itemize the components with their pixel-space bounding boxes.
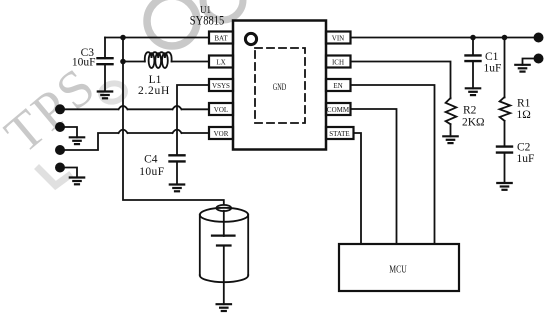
svg-text:1Ω: 1Ω	[517, 109, 531, 121]
pin VOL	[209, 103, 233, 115]
node C1 junction	[470, 35, 476, 41]
pin VOR	[209, 127, 233, 139]
ground at output terminal	[515, 59, 538, 72]
ground under C1	[466, 88, 480, 95]
svg-text:VSYS: VSYS	[212, 82, 230, 90]
svg-text:COMM: COMM	[327, 106, 350, 114]
pin-1 marker circle	[245, 33, 256, 44]
svg-text:1uF: 1uF	[517, 153, 535, 165]
wire VIN rail	[351, 37, 539, 39]
svg-text:BAT: BAT	[214, 35, 228, 43]
wire VOR with crossover hops	[60, 130, 209, 150]
terminal gnd 2	[55, 163, 65, 173]
svg-text:MCU: MCU	[389, 263, 407, 275]
wire VOL with crossover hops	[60, 106, 209, 109]
svg-text:1uF: 1uF	[484, 63, 502, 75]
GND exposed pad (dashed)	[255, 48, 305, 123]
ground under battery	[217, 304, 231, 311]
ground under C3	[98, 92, 112, 99]
svg-text:C1: C1	[485, 51, 499, 63]
pin VIN	[326, 32, 351, 44]
pin EN	[326, 79, 351, 91]
pin COMM	[326, 103, 351, 115]
ground at terminal 2	[60, 168, 84, 185]
svg-text:LX: LX	[216, 59, 225, 67]
MCU block	[339, 244, 459, 291]
node BAT/C3 junction	[120, 35, 126, 41]
svg-text:ICH: ICH	[332, 59, 344, 67]
pin STATE	[326, 127, 354, 139]
ground under C2	[497, 183, 511, 190]
ground at terminal 1	[60, 127, 84, 144]
svg-text:TPS: TPS	[0, 56, 107, 164]
wire VSYS down	[177, 85, 209, 155]
svg-text:STATE: STATE	[329, 130, 349, 138]
wire EN to MCU	[351, 85, 435, 244]
wire BAT rail down to battery	[123, 38, 224, 205]
terminal VOR input	[55, 145, 65, 155]
pin BAT	[209, 32, 233, 44]
pin VSYS	[209, 79, 233, 91]
svg-text:VOR: VOR	[214, 130, 229, 138]
capacitor C4	[139, 153, 184, 184]
pin LX	[209, 56, 233, 68]
wire LX line	[123, 61, 209, 63]
ground under R2	[443, 136, 457, 143]
svg-text:C4: C4	[144, 153, 158, 165]
svg-text:2KΩ: 2KΩ	[462, 117, 485, 129]
capacitor C2	[497, 142, 534, 184]
battery cell	[200, 205, 248, 304]
watermark	[0, 0, 243, 186]
svg-text:SY8815: SY8815	[190, 14, 225, 28]
svg-text:VOL: VOL	[214, 106, 228, 114]
wire ICH to R2	[351, 62, 451, 99]
wire STATE to MCU	[354, 133, 362, 244]
terminal VOL input	[55, 104, 65, 114]
wire COMM to MCU	[351, 109, 397, 244]
resistor R2 2K	[446, 98, 485, 136]
capacitor C1	[466, 38, 502, 89]
svg-text:GND: GND	[273, 83, 287, 93]
U1 reference label	[190, 5, 225, 28]
svg-text:2.2uH: 2.2uH	[138, 85, 170, 97]
svg-text:VIN: VIN	[332, 35, 344, 43]
capacitor C3	[72, 38, 113, 92]
svg-text:R2: R2	[463, 105, 477, 117]
inductor L1 2.2uH	[138, 52, 172, 97]
terminal gnd output	[534, 54, 544, 64]
pin ICH	[326, 56, 351, 68]
svg-text:EN: EN	[333, 82, 342, 90]
IC U1 SY8815 body	[233, 21, 326, 150]
terminal VIN output	[534, 33, 544, 43]
node LX/L1 junction	[120, 59, 126, 65]
terminal gnd 1	[55, 122, 65, 132]
svg-text:C2: C2	[517, 142, 531, 154]
svg-text:10uF: 10uF	[139, 166, 164, 178]
svg-text:R1: R1	[517, 98, 531, 110]
ground under C4	[170, 185, 184, 192]
node R1 junction	[502, 35, 508, 41]
svg-text:10uF: 10uF	[72, 57, 96, 69]
resistor R1 1ohm	[500, 38, 531, 147]
wire BAT to C3	[105, 37, 209, 39]
